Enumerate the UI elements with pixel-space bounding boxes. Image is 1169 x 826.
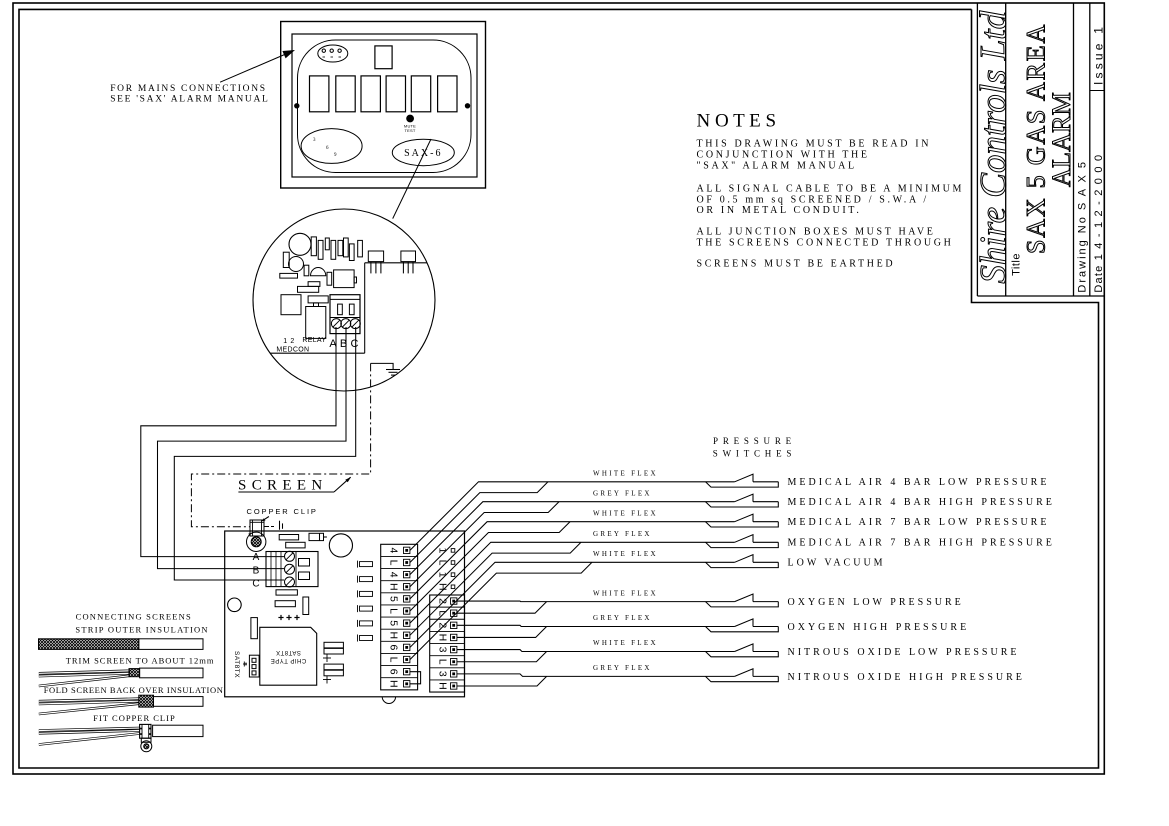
detail pointer line from SAX-6 to zoom circle — [393, 139, 431, 219]
pressure switch row 3 — [706, 514, 779, 527]
pcb mounting hole — [228, 598, 242, 612]
pressure switch row 4 — [706, 535, 779, 548]
resistor R13 — [275, 601, 295, 607]
svg-text:GREY FLEX: GREY FLEX — [593, 614, 652, 622]
wire C from SAX-6 to pcb — [174, 327, 355, 580]
mute test button — [404, 115, 416, 133]
screen dash-dot boundary — [191, 363, 370, 526]
svg-text:H: H — [437, 634, 449, 642]
resistor R11 — [286, 542, 305, 548]
screen termination stub — [264, 521, 283, 530]
svg-text:"SAX" ALARM MANUAL: "SAX" ALARM MANUAL — [697, 160, 857, 171]
svg-text:GREY FLEX: GREY FLEX — [593, 664, 652, 672]
pressure switch row 8 — [706, 644, 779, 657]
title block — [977, 3, 1104, 296]
svg-text:FIT COPPER CLIP: FIT COPPER CLIP — [93, 713, 175, 723]
svg-text:B: B — [253, 565, 260, 576]
switch name row 8 — [788, 647, 1020, 658]
svg-text:CONNECTING SCREENS: CONNECTING SCREENS — [76, 612, 192, 622]
svg-text:C: C — [351, 338, 359, 350]
unused terminal pads 1 L 1 H — [437, 547, 455, 590]
pressure switch row 6 — [706, 594, 779, 607]
fit copper clip label — [93, 713, 175, 723]
crystal X2 — [323, 664, 343, 683]
svg-text:MEDCON: MEDCON — [276, 347, 309, 354]
flex label row 5 — [593, 550, 658, 558]
pressure switch row 7 — [706, 619, 779, 632]
notes paragraph 3 — [697, 227, 954, 249]
switch name row 4 — [788, 538, 1055, 549]
svg-text:COPPER CLIP: COPPER CLIP — [247, 507, 318, 516]
resistor R2 — [308, 282, 320, 287]
detail pcb edge step — [271, 263, 428, 353]
flex label row 2 — [593, 489, 652, 497]
wire pair row 6 from TB2 — [457, 601, 706, 613]
svg-text:SEE 'SAX' ALARM MANUAL: SEE 'SAX' ALARM MANUAL — [110, 95, 269, 105]
svg-text:SAT8TX: SAT8TX — [276, 649, 301, 655]
SCREEN label underline and arrow — [238, 477, 351, 492]
terminal strip TB1 — [381, 544, 418, 690]
switch name row 6 — [788, 597, 964, 608]
svg-text:SAX-6: SAX-6 — [404, 148, 442, 159]
wire pair row 9 from TB2 — [457, 674, 706, 686]
notes paragraph 1 — [697, 139, 932, 172]
switch name row 9 — [788, 672, 1025, 683]
diode array left of terminal strip — [358, 561, 373, 642]
panel left screw — [295, 104, 299, 108]
svg-text:OXYGEN HIGH PRESSURE: OXYGEN HIGH PRESSURE — [788, 622, 970, 633]
pressure switches heading — [713, 436, 796, 459]
svg-text:Date 1 4 - 1 2 - 2 0 0 0: Date 1 4 - 1 2 - 2 0 0 0 — [1093, 154, 1105, 293]
svg-text:CHIP TYPE: CHIP TYPE — [270, 657, 306, 663]
resistor R1 — [280, 273, 298, 278]
svg-text:3: 3 — [437, 647, 449, 653]
pressure switch row 2 — [706, 494, 779, 507]
flex label row 7 — [593, 614, 652, 622]
wire pair row 2 from TB1 — [410, 502, 706, 587]
svg-text:A: A — [253, 552, 260, 563]
round capacitor C2 — [289, 257, 304, 272]
svg-text:LOW VACUUM: LOW VACUUM — [788, 558, 886, 569]
svg-text:PRESSURE: PRESSURE — [713, 436, 796, 446]
svg-text:NITROUS OXIDE HIGH PRESSURE: NITROUS OXIDE HIGH PRESSURE — [788, 672, 1025, 683]
wire pair row 3 from TB1 — [410, 522, 706, 611]
svg-text:CONJUNCTION WITH THE: CONJUNCTION WITH THE — [697, 149, 870, 160]
pressure switch row 1 — [706, 474, 779, 487]
title block text: ALARM — [1047, 92, 1076, 187]
svg-text:5: 5 — [388, 620, 400, 626]
switch name row 5 — [788, 558, 886, 569]
pcb bottom notch — [382, 697, 395, 704]
svg-text:GREY FLEX: GREY FLEX — [593, 530, 652, 538]
svg-text:H: H — [388, 680, 400, 688]
wire B from SAX-6 to pcb — [158, 327, 347, 569]
svg-text:THIS DRAWING MUST BE READ IN: THIS DRAWING MUST BE READ IN — [697, 139, 932, 150]
ground symbol — [371, 363, 400, 375]
MEDCON label — [276, 347, 309, 354]
flex label row 8 — [593, 639, 658, 647]
wire pair row 7 from TB2 — [457, 625, 706, 637]
svg-text:6: 6 — [388, 669, 400, 675]
svg-text:FOLD SCREEN BACK OVER INSULATI: FOLD SCREEN BACK OVER INSULATION — [44, 685, 224, 695]
wire pair row 5 from TB1 — [410, 562, 706, 659]
main pcb board outline — [225, 531, 465, 697]
notes paragraph 4 — [697, 259, 896, 270]
svg-text:Issue 1: Issue 1 — [1091, 24, 1105, 85]
svg-text:H: H — [388, 631, 400, 639]
svg-text:WHITE FLEX: WHITE FLEX — [593, 589, 658, 597]
cable step 4 with copper clip — [39, 724, 203, 751]
SAX-6 label ellipse — [392, 139, 454, 165]
trim screen label — [66, 656, 215, 666]
svg-text:L: L — [437, 659, 449, 665]
strip outer insulation label — [75, 625, 208, 635]
copper clip on pcb — [249, 520, 264, 536]
mains note arrow — [220, 50, 295, 82]
svg-text:C: C — [252, 579, 259, 590]
switch name row 2 — [788, 497, 1055, 508]
medcon pin labels 1 2 RELAY — [283, 337, 326, 345]
led cluster marks — [278, 615, 299, 620]
title block text: Drawing No SAX 5 — [1077, 160, 1089, 293]
svg-text:OR IN METAL CONDUIT.: OR IN METAL CONDUIT. — [697, 205, 862, 216]
svg-text:5: 5 — [388, 596, 400, 602]
svg-text:RELAY: RELAY — [302, 337, 326, 344]
capacitor C4 — [327, 272, 332, 285]
svg-text:NITROUS OXIDE LOW PRESSURE: NITROUS OXIDE LOW PRESSURE — [788, 647, 1020, 658]
svg-text:MEDICAL AIR 4 BAR HIGH PRESSUR: MEDICAL AIR 4 BAR HIGH PRESSURE — [788, 497, 1055, 508]
capacitor C3 — [304, 265, 309, 276]
svg-text:THE SCREENS CONNECTED THROUGH: THE SCREENS CONNECTED THROUGH — [697, 237, 954, 248]
SAT8TX label — [233, 651, 240, 678]
alarm panel inner frame — [292, 34, 477, 177]
notes paragraph 2 — [697, 183, 965, 216]
crystal X1 — [323, 642, 343, 662]
svg-text:OF 0.5 mm sq SCREENED / S.W.A: OF 0.5 mm sq SCREENED / S.W.A / — [697, 194, 929, 205]
title block text: Date 14-12-2000 — [1093, 154, 1105, 293]
notes heading — [697, 111, 777, 132]
title block text: Issue 1 — [1091, 24, 1105, 85]
panel right screw — [465, 104, 469, 108]
copper clip screw — [247, 532, 266, 551]
svg-text:SAT8TX: SAT8TX — [233, 651, 240, 678]
svg-text:H: H — [388, 583, 400, 591]
transistor Q2 on detail pcb — [401, 251, 416, 273]
switch name row 1 — [788, 477, 1050, 488]
jumper on TB1 terminals 6/H — [410, 672, 421, 684]
copper clip pointer arrow — [262, 517, 269, 522]
svg-text:6: 6 — [388, 644, 400, 650]
svg-text:WHITE FLEX: WHITE FLEX — [593, 639, 658, 647]
svg-text:FOR MAINS CONNECTIONS: FOR MAINS CONNECTIONS — [110, 84, 267, 94]
svg-text:3: 3 — [313, 138, 316, 143]
svg-text:Title: Title — [1011, 253, 1023, 276]
transistor Q1 on detail pcb — [368, 251, 383, 273]
relay K1 — [306, 296, 329, 339]
svg-text:STRIP OUTER INSULATION: STRIP OUTER INSULATION — [75, 625, 208, 635]
connecting screens heading — [76, 612, 192, 622]
cable step 2 — [39, 668, 203, 686]
flex label row 6 — [593, 589, 658, 597]
switch name row 3 — [788, 517, 1050, 528]
detail zoom circle — [253, 209, 435, 391]
capacitor C10 — [303, 597, 309, 615]
terminal strip TB2 — [430, 595, 465, 692]
title block text: Shire Controls Ltd — [974, 10, 1015, 283]
svg-text:ALL SIGNAL CABLE TO BE A MINIM: ALL SIGNAL CABLE TO BE A MINIMUM — [697, 183, 965, 194]
svg-text:3: 3 — [437, 671, 449, 677]
svg-text:Drawing No S A X 5: Drawing No S A X 5 — [1077, 160, 1089, 293]
left capacitor C1 — [283, 252, 289, 267]
SCREEN label — [238, 478, 323, 494]
flex label row 3 — [593, 509, 658, 517]
cable step 1 — [39, 639, 204, 650]
dome component D1 — [311, 268, 326, 276]
pcb large circle — [329, 534, 352, 557]
diode D10 — [309, 533, 327, 540]
wire A from SAX-6 to pcb — [141, 327, 336, 557]
medcon terminal block detail — [330, 295, 360, 334]
pcb abc terminal block — [266, 551, 318, 587]
svg-text:L: L — [388, 608, 400, 614]
COPPER CLIP label — [247, 507, 318, 516]
capacitor row on detail pcb — [311, 237, 362, 261]
wire pair row 8 from TB2 — [457, 650, 706, 662]
flex label row 1 — [593, 470, 658, 478]
flex label row 9 — [593, 664, 652, 672]
svg-text:MEDICAL AIR 7 BAR LOW PRESSURE: MEDICAL AIR 7 BAR LOW PRESSURE — [788, 517, 1050, 528]
svg-text:TEST: TEST — [404, 128, 415, 133]
svg-text:ALL JUNCTION BOXES MUST HAVE: ALL JUNCTION BOXES MUST HAVE — [697, 227, 936, 238]
svg-text:4: 4 — [388, 572, 400, 578]
terminal letters A B C pcb — [252, 552, 259, 590]
title block text: SAX 5 GAS AREA — [1022, 23, 1051, 254]
svg-text:MEDICAL AIR 4 BAR LOW PRESSURE: MEDICAL AIR 4 BAR LOW PRESSURE — [788, 477, 1050, 488]
chip U10 SAT8TX — [260, 627, 317, 685]
svg-text:L: L — [388, 560, 400, 566]
svg-text:N O T E S: N O T E S — [697, 111, 777, 132]
svg-text:WHITE FLEX: WHITE FLEX — [593, 550, 658, 558]
fold screen label — [44, 685, 224, 695]
pressure switch row 5 — [706, 555, 779, 568]
svg-text:9: 9 — [334, 153, 337, 158]
svg-text:1 2: 1 2 — [283, 338, 295, 345]
svg-text:TRIM SCREEN TO ABOUT 12mm: TRIM SCREEN TO ABOUT 12mm — [66, 656, 215, 666]
svg-text:S C R E E N: S C R E E N — [238, 478, 323, 494]
buzzer — [289, 233, 311, 255]
wire pair row 1 from TB1 — [410, 482, 706, 563]
mains connection note — [110, 84, 269, 105]
panel bottom-left ellipse — [301, 129, 362, 164]
resistor R3 — [298, 286, 319, 292]
resistor R12 — [276, 590, 297, 595]
svg-text:OXYGEN LOW PRESSURE: OXYGEN LOW PRESSURE — [788, 597, 964, 608]
panel top connector square — [375, 46, 392, 69]
svg-text:WHITE FLEX: WHITE FLEX — [593, 470, 658, 478]
ic U1 — [334, 270, 357, 288]
svg-text:SCREENS MUST BE EARTHED: SCREENS MUST BE EARTHED — [697, 259, 896, 270]
polarity mark — [243, 662, 247, 667]
terminal letters A B C detail — [329, 338, 358, 350]
panel LED cluster ellipse — [318, 45, 348, 62]
svg-text:GREY FLEX: GREY FLEX — [593, 489, 652, 497]
svg-text:H: H — [437, 682, 449, 690]
sat8tx connector J2 — [249, 655, 259, 677]
title block text: Title label — [1011, 253, 1023, 276]
wire pair row 4 from TB1 — [410, 542, 706, 635]
cable step 3 — [39, 695, 203, 714]
svg-text:MEDICAL AIR 7 BAR HIGH PRESSUR: MEDICAL AIR 7 BAR HIGH PRESSURE — [788, 538, 1055, 549]
svg-text:6: 6 — [326, 146, 329, 151]
svg-text:4: 4 — [388, 547, 400, 553]
switch name row 7 — [788, 622, 970, 633]
pressure switch row 9 — [706, 669, 779, 682]
panel display windows — [310, 76, 458, 112]
svg-text:SWITCHES: SWITCHES — [713, 449, 796, 459]
svg-text:L: L — [388, 657, 400, 663]
flex label row 4 — [593, 530, 652, 538]
svg-text:WHITE FLEX: WHITE FLEX — [593, 509, 658, 517]
svg-text:Shire Controls Ltd: Shire Controls Ltd — [974, 10, 1015, 283]
square component U2 — [281, 295, 301, 315]
capacitor C11 — [251, 618, 258, 639]
svg-text:ALARM: ALARM — [1047, 92, 1076, 187]
resistor R10 — [279, 535, 298, 540]
alarm panel facia rounded outline — [298, 40, 472, 173]
alarm panel outer enclosure — [281, 22, 486, 189]
